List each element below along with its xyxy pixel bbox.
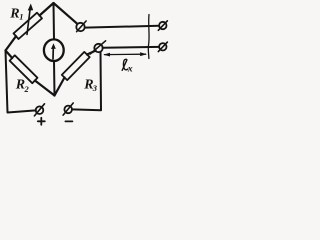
wire node T to galvanometer [53,3,56,40]
resistor R1 [14,13,43,39]
terminal plus [36,106,44,114]
wire S2 to right terminal [103,46,160,49]
wire L to R1 [6,36,17,50]
slash of minus terminal [63,103,73,115]
slash of lower right terminal [158,42,167,52]
resistor R3 [62,52,90,80]
svg-text:R: R [9,7,19,22]
wire node B to R3 [55,78,65,96]
svg-text:2: 2 [24,84,30,94]
resistor R2 [10,55,38,83]
terminal top right [159,22,166,29]
wire R1 to node T [40,3,54,16]
slash of S1 [77,21,87,32]
wire minus terminal to slider S2 [72,52,101,110]
wire R3 to slider S2 [87,51,96,55]
right arrowhead of dimension [140,52,147,56]
terminal lower right [159,43,166,50]
svg-text:3: 3 [92,83,98,93]
slider contact S2 [94,44,102,52]
wire node T to slider S1 [54,3,78,24]
wire galvanometer to node B [53,61,56,96]
extension line [147,15,150,59]
slash of plus terminal [34,104,44,116]
svg-text:x: x [127,65,133,75]
dimension line lx [105,53,146,55]
needle of galvanometer [52,48,54,60]
terminal minus [64,106,72,114]
svg-text:1: 1 [19,12,23,22]
label lx [122,59,128,70]
wire L to R2 [6,51,13,59]
arrow of variable resistor R1 [27,8,30,35]
slash of S2 [90,41,105,54]
minus sign [65,120,72,122]
plus sign [38,120,45,122]
galvanometer G [44,39,64,61]
wire node L down to plus terminal [6,51,36,113]
slash of top right terminal [158,21,167,31]
wire S1 to right terminal [85,26,159,28]
slider contact S1 [76,23,84,31]
left arrowhead of dimension [103,53,110,57]
wire R2 to node B [35,81,55,96]
